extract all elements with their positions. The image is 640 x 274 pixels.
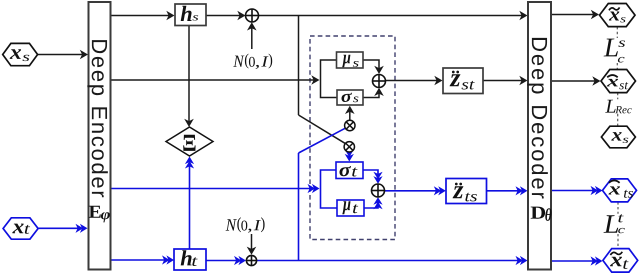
lower otimes bbox=[344, 142, 354, 152]
loss label LRec bbox=[605, 100, 615, 113]
blue wire decoder to xt-tilde output bbox=[551, 260, 595, 262]
zts box bbox=[446, 179, 487, 204]
dashed reparameterization box bbox=[310, 36, 395, 240]
bottom noise label N(0,I) bbox=[226, 219, 237, 230]
wire hs down to Xi diamond bbox=[188, 26, 190, 122]
wire sigma-s to combine-sum-s bbox=[364, 92, 380, 98]
Deep Encoder box bbox=[89, 2, 111, 270]
blue branch vertical from bottom rail at node x=298.5 bbox=[298, 153, 300, 261]
wire encoder to mu-sigma-s bracket bbox=[111, 79, 315, 81]
wire top noise label to noise-sum bbox=[251, 27, 253, 49]
loss label Lc-s bbox=[604, 39, 618, 57]
hexagon xt input bbox=[3, 218, 38, 239]
Deep Decoder box bbox=[528, 2, 551, 270]
upper otimes bbox=[345, 120, 355, 130]
sigma-s box bbox=[337, 90, 363, 105]
decoder label D-theta bbox=[531, 207, 545, 219]
blue wire xt input to encoder bbox=[39, 227, 81, 229]
wire decoder to xst-hat output bbox=[551, 80, 596, 82]
hexagon xs ground truth bbox=[601, 126, 635, 148]
mu-s box bbox=[337, 52, 364, 68]
blue diagonal to upper otimes bbox=[299, 128, 347, 153]
blue wire zts to decoder bbox=[487, 190, 521, 192]
hexagon xts-hat output bbox=[603, 179, 637, 202]
top noise label N(0,I) bbox=[233, 56, 244, 67]
blue wire encoder to ht bbox=[111, 259, 167, 261]
wire mu-s to combine-sum-s bbox=[364, 60, 380, 70]
wire noise-sum to decoder (top rail) bbox=[258, 15, 522, 17]
wire branch vertical from top rail at node x=298.5 bbox=[298, 16, 300, 116]
wire encoder to hs bbox=[111, 15, 170, 17]
blue wire combine-sum-t to zts bbox=[385, 190, 439, 192]
hexagon xs input bbox=[3, 43, 38, 65]
blue wire ht up to Xi diamond bbox=[189, 164, 191, 249]
blue wire noise-sum to decoder (bottom rail) bbox=[257, 260, 520, 262]
blue wire sigma-t to combine-sum-t bbox=[363, 170, 378, 176]
blue wire mu-t to combine-sum-t bbox=[364, 202, 378, 208]
blue bracket joining sigma-t and mu-t inputs bbox=[321, 170, 337, 208]
wire xs input to encoder bbox=[38, 54, 84, 56]
hexagon xs-tilde output bbox=[600, 4, 636, 27]
mu-t box bbox=[337, 200, 364, 216]
loss dashed link xs-tilde to xst-hat bbox=[616, 27, 618, 38]
blue wire ht to noise-sum bbox=[207, 260, 239, 262]
loss label Lc-t bbox=[604, 215, 619, 233]
ht box bbox=[174, 249, 206, 270]
wire bottom noise label to noise-sum bbox=[251, 234, 253, 250]
hexagon xt-tilde output bbox=[603, 249, 638, 273]
bracket joining mu-s and sigma-s inputs bbox=[321, 60, 337, 98]
wire upper otimes to sigma-s bbox=[349, 110, 351, 121]
combine-sum-t oplus bbox=[372, 184, 385, 197]
blue wire lower otimes to sigma-t bbox=[348, 152, 350, 153]
wire black diagonal to lower otimes bbox=[299, 115, 346, 144]
wire decoder to xs-tilde output bbox=[551, 14, 594, 16]
wire hs to noise-sum bbox=[206, 15, 241, 17]
blue wire encoder to sigma-mu-t bracket bbox=[111, 188, 313, 190]
wire combine-sum-s to zst bbox=[386, 80, 439, 82]
wire zst to decoder bbox=[483, 80, 522, 82]
zst box bbox=[443, 68, 483, 94]
sigma-t box bbox=[336, 162, 363, 179]
encoder label E-phi bbox=[89, 206, 101, 218]
hs box bbox=[175, 4, 206, 26]
loss dashed link xst-hat to xs bbox=[617, 93, 619, 100]
loss dashed link xts-hat to xt-tilde bbox=[617, 202, 619, 214]
blue wire decoder to xts-hat output bbox=[551, 190, 595, 192]
combine-sum-s oplus bbox=[373, 75, 386, 88]
bottom noise-sum oplus bbox=[246, 255, 256, 265]
top noise-sum oplus bbox=[246, 9, 259, 22]
Xi similarity diamond bbox=[166, 127, 213, 156]
hexagon xst-hat output bbox=[601, 70, 636, 93]
